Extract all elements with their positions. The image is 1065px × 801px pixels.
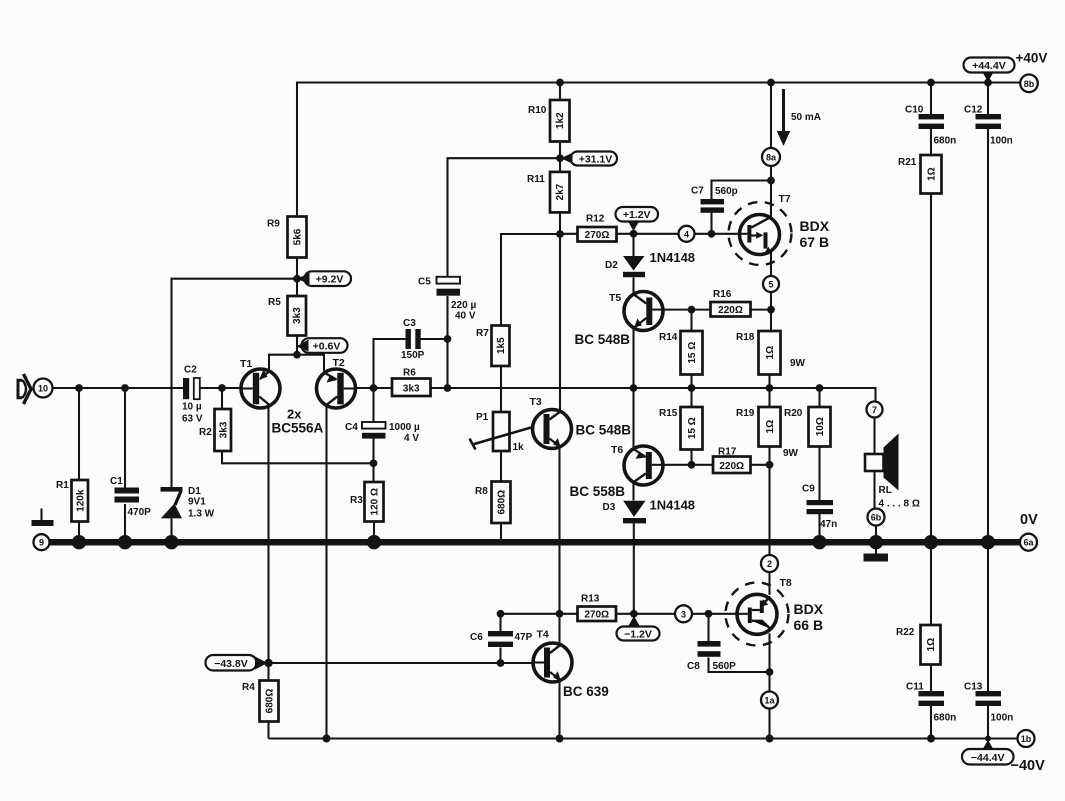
svg-text:10: 10 xyxy=(38,384,48,394)
svg-text:1N4148: 1N4148 xyxy=(650,498,696,513)
junction dots on 0V bus xyxy=(72,535,86,549)
wire R22 C11 column xyxy=(930,545,932,739)
wire T5 base to R16 xyxy=(663,309,771,311)
svg-text:47n: 47n xyxy=(820,519,837,530)
svg-text:D2: D2 xyxy=(605,260,618,271)
svg-text:C1: C1 xyxy=(110,476,123,487)
svg-text:T2: T2 xyxy=(333,357,345,369)
wire 2 to T8 xyxy=(768,572,770,595)
callout +44.4V xyxy=(964,58,1015,83)
input connector symbol xyxy=(18,374,31,404)
svg-text:4: 4 xyxy=(684,229,689,239)
terminal circle 9 xyxy=(34,534,50,550)
svg-text:8a: 8a xyxy=(766,153,777,163)
resistor R14 xyxy=(659,331,703,375)
svg-text:6a: 6a xyxy=(1023,538,1034,548)
svg-text:R17: R17 xyxy=(718,447,737,458)
wire R8 to bus xyxy=(500,523,502,540)
svg-text:470P: 470P xyxy=(128,507,152,518)
callout +9.2V xyxy=(298,271,352,286)
svg-text:T5: T5 xyxy=(609,292,621,304)
wire C7 branch xyxy=(712,181,772,234)
callout -44.4V xyxy=(962,740,1014,765)
wire 8a column T7 collector xyxy=(770,83,772,219)
svg-text:−44.4V: −44.4V xyxy=(971,752,1005,764)
wire +9.2V branch to D1 xyxy=(172,279,298,488)
svg-text:R3: R3 xyxy=(350,495,363,506)
capacitor C3 xyxy=(401,318,425,361)
svg-text:66 B: 66 B xyxy=(794,617,824,633)
wire R13 line xyxy=(501,613,738,615)
resistor R9 xyxy=(267,217,307,258)
wire input line xyxy=(53,387,242,389)
svg-text:BC556A: BC556A xyxy=(272,421,324,436)
svg-text:R22: R22 xyxy=(896,627,915,638)
svg-text:R7: R7 xyxy=(476,328,489,339)
svg-text:1Ω: 1Ω xyxy=(765,346,776,360)
wire T4 collector xyxy=(558,614,560,645)
svg-text:C9: C9 xyxy=(802,484,815,495)
svg-text:C11: C11 xyxy=(906,682,924,693)
wire R7 top branch xyxy=(501,234,560,326)
capacitor C8 xyxy=(687,641,736,672)
svg-text:C7: C7 xyxy=(691,186,704,197)
svg-text:D3: D3 xyxy=(603,502,616,513)
diode D3 xyxy=(603,498,696,524)
resistor R8 xyxy=(475,482,511,524)
ground symbol left xyxy=(32,509,54,527)
transistor T2 xyxy=(317,357,356,408)
svg-text:BDX: BDX xyxy=(794,601,824,617)
resistor R10 xyxy=(528,100,570,142)
svg-text:15 Ω: 15 Ω xyxy=(687,342,698,364)
resistor R15 xyxy=(659,407,703,450)
wire T8 collector to 1a xyxy=(768,633,770,691)
capacitor C4 electrolytic xyxy=(345,422,420,444)
transistor T5 xyxy=(575,292,664,348)
resistor R12 xyxy=(578,214,617,242)
svg-text:5: 5 xyxy=(768,280,773,290)
svg-text:R16: R16 xyxy=(713,289,732,300)
wire C4 R3 column xyxy=(372,388,375,540)
resistor R7 xyxy=(476,326,510,367)
wire R2 branch xyxy=(222,388,374,463)
svg-text:220Ω: 220Ω xyxy=(718,305,743,316)
svg-text:1k2: 1k2 xyxy=(555,112,566,129)
svg-text:R19: R19 xyxy=(736,408,755,419)
transistor T6 xyxy=(570,444,664,499)
svg-text:100n: 100n xyxy=(991,713,1014,724)
svg-text:−40V: −40V xyxy=(1011,758,1046,774)
svg-text:680n: 680n xyxy=(934,713,957,724)
terminal circle 1a xyxy=(761,692,778,709)
svg-text:+1.2V: +1.2V xyxy=(623,209,651,221)
svg-text:8b: 8b xyxy=(1024,79,1035,89)
resistor R5 xyxy=(268,296,306,336)
svg-text:D1: D1 xyxy=(188,486,201,497)
diode D2 xyxy=(605,250,695,277)
terminal circle 8b xyxy=(1020,75,1038,93)
junction dots on -40V rail xyxy=(323,735,331,743)
transistor T4 xyxy=(533,629,609,700)
wire -43.8V line to T4 base xyxy=(269,662,534,664)
svg-text:2k7: 2k7 xyxy=(555,183,566,200)
svg-text:100n: 100n xyxy=(990,136,1013,147)
svg-text:680n: 680n xyxy=(934,136,957,147)
svg-text:R5: R5 xyxy=(268,297,281,308)
wire T2 base to R6 xyxy=(356,387,393,389)
capacitor C11 xyxy=(906,682,956,724)
terminal circle 8a xyxy=(762,148,780,166)
wire C12 column xyxy=(987,83,989,541)
wire R15 links xyxy=(690,388,692,465)
resistor R4 xyxy=(242,681,279,722)
svg-text:−1.2V: −1.2V xyxy=(624,629,652,641)
zener diode D1 xyxy=(161,486,215,520)
svg-text:T8: T8 xyxy=(780,577,792,589)
resistor R16 xyxy=(711,289,751,317)
svg-text:BC 548B: BC 548B xyxy=(576,423,632,438)
svg-text:T7: T7 xyxy=(779,193,791,205)
resistor R1 xyxy=(56,480,88,522)
wire R9 to R5 column xyxy=(296,258,298,355)
svg-text:C8: C8 xyxy=(687,661,700,672)
svg-text:RL: RL xyxy=(879,485,892,496)
callout +1.2V xyxy=(616,207,659,231)
transistor T3 xyxy=(530,396,632,449)
label 2x BC556A xyxy=(272,407,324,436)
svg-text:R21: R21 xyxy=(898,157,917,168)
wire C6 branch xyxy=(499,614,501,663)
svg-text:10 µ: 10 µ xyxy=(182,402,202,413)
svg-text:120k: 120k xyxy=(76,489,87,512)
wire R7 to P1 xyxy=(500,366,502,412)
wire 5 to R18 xyxy=(770,292,772,331)
speaker RL xyxy=(865,434,920,510)
svg-text:T4: T4 xyxy=(537,629,549,641)
svg-text:9V1: 9V1 xyxy=(188,497,206,508)
svg-text:+0.6V: +0.6V xyxy=(313,341,341,353)
wire C1 column xyxy=(124,388,126,540)
terminal circle 10 xyxy=(34,379,53,398)
junction dots misc upper xyxy=(293,275,301,283)
svg-text:C2: C2 xyxy=(184,365,197,376)
wire -40V bottom rail xyxy=(269,737,1018,739)
svg-text:1Ω: 1Ω xyxy=(926,638,937,652)
svg-text:C10: C10 xyxy=(905,105,924,116)
wire R1 column xyxy=(78,388,80,540)
callout -43.8V xyxy=(206,655,268,671)
resistor R6 xyxy=(392,368,431,397)
wire D2 T5 T6 D3 column xyxy=(632,234,634,614)
terminal circle 6a xyxy=(1020,534,1037,551)
svg-text:R15: R15 xyxy=(659,408,678,419)
svg-text:15 Ω: 15 Ω xyxy=(687,417,698,439)
svg-text:50 mA: 50 mA xyxy=(791,112,821,123)
svg-text:6b: 6b xyxy=(871,513,882,523)
svg-text:680Ω: 680Ω xyxy=(497,490,508,515)
wire D1 to 0V bus xyxy=(170,519,172,541)
capacitor C1 xyxy=(110,476,151,518)
svg-text:R4: R4 xyxy=(242,682,255,693)
wire R12 line to T7 base xyxy=(560,233,740,235)
wire T7 emitter to 5 xyxy=(770,252,772,276)
svg-text:7: 7 xyxy=(872,405,877,415)
svg-text:1a: 1a xyxy=(764,696,775,706)
resistor R2 xyxy=(199,409,231,451)
svg-text:0V: 0V xyxy=(1020,512,1038,528)
svg-text:T6: T6 xyxy=(611,444,623,456)
svg-text:220Ω: 220Ω xyxy=(719,461,744,472)
wire P1 to R8 xyxy=(500,451,502,482)
resistor R13 xyxy=(578,594,617,622)
wire T6 base R17 line xyxy=(663,464,770,466)
wire R10 top xyxy=(559,83,561,101)
svg-text:R10: R10 xyxy=(528,105,547,116)
capacitor C2 xyxy=(182,365,203,425)
terminal circle 1b xyxy=(1018,730,1035,747)
wire R4 links xyxy=(267,663,269,739)
svg-text:270Ω: 270Ω xyxy=(584,610,609,621)
wire R14 links xyxy=(690,310,692,388)
resistor R17 xyxy=(713,447,751,474)
wire 1a to -40V rail xyxy=(768,709,770,739)
potentiometer P1 xyxy=(470,412,532,453)
svg-text:2x: 2x xyxy=(287,407,302,422)
svg-text:680Ω: 680Ω xyxy=(265,689,276,714)
svg-text:C3: C3 xyxy=(403,318,416,329)
svg-text:3k3: 3k3 xyxy=(292,307,303,324)
svg-text:1k: 1k xyxy=(513,442,525,453)
wire +40V top rail xyxy=(297,83,1022,217)
capacitor C12 xyxy=(964,105,1013,147)
svg-text:1.3 W: 1.3 W xyxy=(188,509,215,520)
svg-text:T1: T1 xyxy=(240,358,252,370)
wire R19 to 2 xyxy=(768,447,770,556)
transistor T8 BDX66B darlington xyxy=(726,577,824,646)
svg-text:C5: C5 xyxy=(418,277,431,288)
wire speaker column xyxy=(875,418,877,541)
wire C5 column xyxy=(448,158,561,388)
capacitor C5 electrolytic xyxy=(418,277,476,322)
resistor R19 xyxy=(736,407,799,459)
wire C8 branch xyxy=(709,614,770,672)
wire C13 column xyxy=(987,545,989,739)
svg-text:R2: R2 xyxy=(199,427,212,438)
resistor R22 xyxy=(896,625,941,665)
svg-text:4 V: 4 V xyxy=(404,433,419,444)
50 mA current arrow xyxy=(777,89,821,146)
callout -1.2V xyxy=(617,616,660,641)
svg-text:R13: R13 xyxy=(581,594,600,605)
svg-text:1Ω: 1Ω xyxy=(927,167,938,181)
svg-text:R12: R12 xyxy=(586,214,605,225)
callout +31.1V xyxy=(561,152,617,166)
svg-text:R9: R9 xyxy=(267,219,280,230)
wire R6 to output node line xyxy=(431,388,876,402)
svg-text:R18: R18 xyxy=(736,332,755,343)
svg-text:47P: 47P xyxy=(515,632,533,643)
svg-text:C6: C6 xyxy=(470,632,483,643)
svg-text:9: 9 xyxy=(39,538,44,548)
wire 0V bus xyxy=(50,539,1021,546)
svg-text:10Ω: 10Ω xyxy=(815,417,826,436)
resistor R11 xyxy=(527,172,570,213)
svg-text:5k6: 5k6 xyxy=(293,228,304,245)
svg-text:150P: 150P xyxy=(401,350,425,361)
wire C10 R21 column xyxy=(930,83,932,541)
svg-text:4 . . . 8 Ω: 4 . . . 8 Ω xyxy=(879,499,920,510)
svg-text:BC 558B: BC 558B xyxy=(570,484,626,499)
svg-text:3k3: 3k3 xyxy=(219,421,230,438)
terminal circle 4 xyxy=(679,226,695,242)
svg-text:220 µ: 220 µ xyxy=(451,300,476,311)
svg-text:9W: 9W xyxy=(790,358,806,369)
svg-text:3k3: 3k3 xyxy=(403,384,420,395)
capacitor C6 xyxy=(470,631,533,647)
svg-text:R8: R8 xyxy=(475,486,488,497)
svg-text:1N4148: 1N4148 xyxy=(650,250,696,265)
svg-text:9W: 9W xyxy=(783,448,799,459)
terminal circle 3 xyxy=(675,605,692,622)
svg-text:P1: P1 xyxy=(476,412,489,423)
terminal circle 6b xyxy=(868,509,885,526)
wire R20 branch C9 xyxy=(818,388,820,540)
svg-text:67 B: 67 B xyxy=(800,234,830,250)
svg-text:C13: C13 xyxy=(964,682,983,693)
transistor T1 xyxy=(240,358,280,408)
svg-text:270Ω: 270Ω xyxy=(585,230,610,241)
svg-text:40 V: 40 V xyxy=(455,311,476,322)
wire C3 branches xyxy=(374,339,448,388)
junction dots misc lower xyxy=(370,459,378,467)
callout +0.6V xyxy=(297,338,348,353)
transistor T7 BDX67B darlington xyxy=(729,193,830,265)
svg-text:560p: 560p xyxy=(715,186,738,197)
wire R18 R19 link xyxy=(768,375,770,408)
svg-text:+44.4V: +44.4V xyxy=(972,60,1006,72)
svg-text:BDX: BDX xyxy=(800,218,830,234)
terminal circle 5 xyxy=(763,276,779,292)
svg-text:C4: C4 xyxy=(345,422,358,433)
svg-text:+9.2V: +9.2V xyxy=(316,274,344,286)
svg-text:2: 2 xyxy=(767,559,772,569)
svg-text:1k5: 1k5 xyxy=(496,337,507,354)
terminal circle 7 xyxy=(867,402,883,418)
resistor R20 xyxy=(784,407,831,447)
capacitor C7 xyxy=(691,186,738,213)
wire T4 emitter to rail xyxy=(558,681,560,739)
svg-text:−43.8V: −43.8V xyxy=(214,658,248,670)
svg-text:560P: 560P xyxy=(713,661,737,672)
capacitor C13 xyxy=(964,682,1013,724)
svg-text:+31.1V: +31.1V xyxy=(579,154,613,166)
svg-text:C12: C12 xyxy=(964,105,983,116)
resistor R21 xyxy=(898,155,942,194)
wire R11 to T3 collector xyxy=(559,212,561,411)
svg-text:1000 µ: 1000 µ xyxy=(389,422,420,433)
terminal circle 2 xyxy=(761,555,778,572)
svg-text:1Ω: 1Ω xyxy=(765,420,776,434)
capacitor C10 xyxy=(905,105,956,147)
ground symbol right xyxy=(864,546,889,562)
svg-text:+40V: +40V xyxy=(1016,51,1048,66)
svg-text:R11: R11 xyxy=(527,174,545,185)
svg-text:T3: T3 xyxy=(530,396,542,408)
resistor R18 xyxy=(736,331,806,375)
wire R10 R11 link xyxy=(559,142,561,172)
svg-text:1b: 1b xyxy=(1021,734,1032,744)
wire T3 emitter down xyxy=(558,447,560,614)
wire T1 collector to -43.8V node xyxy=(267,406,269,663)
svg-text:R6: R6 xyxy=(403,368,416,379)
capacitor C9 xyxy=(802,484,837,531)
svg-text:120 Ω: 120 Ω xyxy=(370,488,381,515)
junction dots on input line xyxy=(75,384,83,392)
svg-text:R20: R20 xyxy=(784,408,803,419)
svg-text:BC 639: BC 639 xyxy=(563,684,609,699)
svg-text:BC 548B: BC 548B xyxy=(575,332,631,347)
svg-text:63 V: 63 V xyxy=(182,414,203,425)
resistor R3 xyxy=(350,482,384,522)
svg-text:3: 3 xyxy=(681,609,686,619)
svg-text:R1: R1 xyxy=(56,480,69,491)
wire T2 collector to -40V rail xyxy=(325,405,327,739)
junction dots on output line xyxy=(370,384,378,392)
svg-text:R14: R14 xyxy=(659,332,678,343)
wire T1 T2 emitter link xyxy=(269,355,324,373)
